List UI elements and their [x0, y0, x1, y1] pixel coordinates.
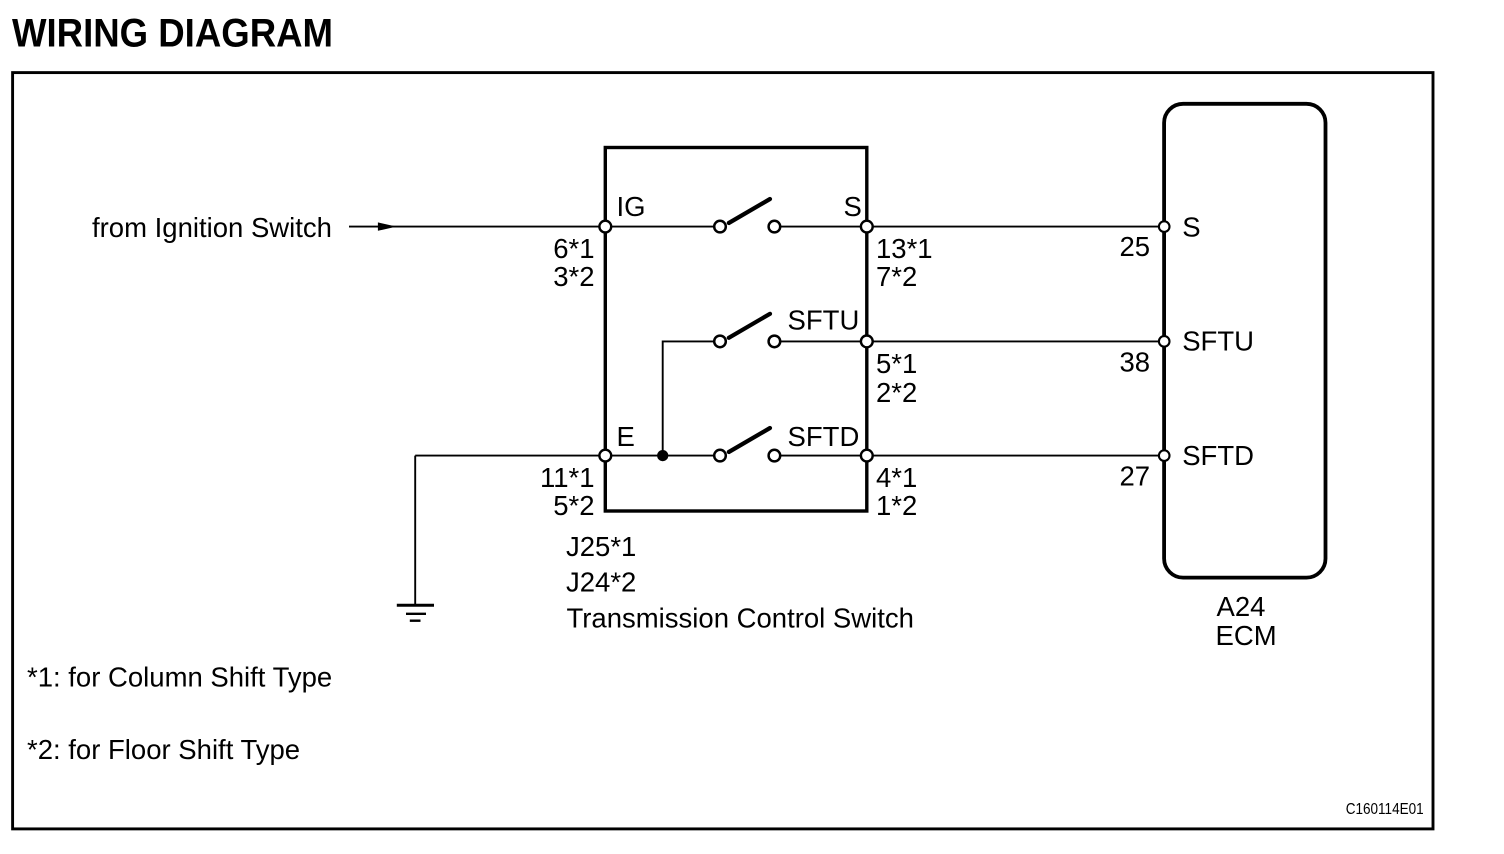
svg-text:A24: A24 — [1217, 591, 1266, 622]
junction dot on E net — [657, 450, 668, 461]
node SFTU (box terminal) — [861, 336, 873, 348]
wire: E terminal to switch SFTD left contact — [605, 455, 720, 457]
switch SFTU left contact — [714, 336, 726, 348]
wire: from ignition switch to IG terminal — [349, 226, 605, 228]
svg-text:2*2: 2*2 — [876, 377, 917, 408]
svg-text:5*1: 5*1 — [876, 348, 917, 379]
svg-text:*2: for Floor Shift Type: *2: for Floor Shift Type — [27, 734, 300, 765]
svg-text:E: E — [617, 421, 635, 452]
wire: IG terminal to switch S left contact — [605, 226, 720, 228]
ECM connector A24 (box) — [1164, 104, 1325, 578]
svg-text:25: 25 — [1120, 231, 1151, 262]
svg-text:Transmission Control Switch: Transmission Control Switch — [567, 603, 914, 634]
svg-text:J24*2: J24*2 — [566, 567, 636, 598]
wire: switch SFTD right contact to SFTD terminal — [774, 455, 866, 457]
svg-text:13*1: 13*1 — [876, 233, 933, 264]
svg-text:SFTD: SFTD — [1182, 440, 1254, 471]
svg-text:IG: IG — [617, 191, 646, 222]
svg-text:4*1: 4*1 — [876, 462, 917, 493]
node ECM pin 27 — [1159, 450, 1170, 461]
switch SFTD left contact — [714, 450, 726, 462]
wire: switch S right contact to S terminal — [774, 226, 866, 228]
wire: ground drop — [414, 456, 416, 605]
svg-text:ECM: ECM — [1216, 620, 1277, 651]
wire: E branch to SFTU switch left contact — [663, 341, 720, 455]
svg-text:SFTD: SFTD — [788, 421, 860, 452]
svg-text:J25*1: J25*1 — [566, 531, 636, 562]
svg-text:3*2: 3*2 — [553, 261, 594, 292]
svg-text:1*2: 1*2 — [876, 490, 917, 521]
switch SFTD right contact — [769, 450, 781, 462]
node ECM pin 38 — [1159, 336, 1170, 347]
node ECM pin 25 — [1159, 221, 1170, 232]
node SFTD (box terminal) — [861, 450, 873, 462]
switch SFTU right contact — [769, 336, 781, 348]
svg-text:27: 27 — [1120, 461, 1151, 492]
svg-text:SFTU: SFTU — [1182, 326, 1254, 357]
svg-text:from Ignition Switch: from Ignition Switch — [92, 212, 332, 243]
svg-text:6*1: 6*1 — [553, 233, 594, 264]
wire: S terminal to ECM pin 25 — [867, 226, 1164, 228]
svg-text:C160114E01: C160114E01 — [1346, 801, 1424, 818]
svg-text:11*1: 11*1 — [540, 462, 595, 493]
svg-text:7*2: 7*2 — [876, 261, 917, 292]
svg-text:5*2: 5*2 — [553, 490, 594, 521]
svg-text:SFTU: SFTU — [788, 305, 860, 336]
arrowhead on ignition feed wire — [378, 222, 397, 230]
node S (box terminal) — [861, 221, 873, 233]
svg-text:*1: for Column Shift Type: *1: for Column Shift Type — [27, 662, 332, 693]
wire: ground to E terminal — [415, 455, 605, 457]
switch SFTD blade — [729, 428, 770, 452]
ground — [397, 605, 434, 620]
node IG (box terminal) — [599, 221, 611, 233]
switch S left contact — [714, 221, 726, 233]
svg-text:S: S — [1182, 211, 1200, 242]
switch SFTU blade — [729, 314, 770, 338]
transmission control switch J25/J24 (box) — [605, 148, 867, 512]
switch S blade — [729, 199, 770, 223]
wire: SFTD terminal to ECM pin 27 — [867, 455, 1164, 457]
svg-text:WIRING DIAGRAM: WIRING DIAGRAM — [12, 12, 333, 56]
switch S right contact — [769, 221, 781, 233]
wire: switch SFTU right contact to SFTU terminal — [774, 340, 866, 342]
svg-text:38: 38 — [1120, 346, 1151, 377]
svg-text:S: S — [844, 191, 862, 222]
node E (box terminal) — [599, 450, 611, 462]
wire: SFTU terminal to ECM pin 38 — [867, 340, 1164, 342]
